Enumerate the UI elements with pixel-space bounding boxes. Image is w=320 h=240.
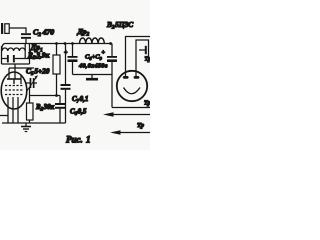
input crystal X1 (1, 23, 9, 34)
node C8 tap (71, 42, 74, 45)
arrow to transformer 2 (110, 130, 150, 134)
capacitor C6 (55, 96, 65, 124)
capacitor to transformer (139, 46, 147, 54)
wire filter ground line (73, 74, 113, 76)
wire bottom rail (2, 122, 66, 124)
capacitor C9 (102, 50, 118, 62)
tank capacitor (2, 55, 26, 62)
tube L2 (117, 71, 147, 101)
wire y68 (9, 67, 34, 69)
svg-text:С2470: С2470 (33, 28, 54, 39)
capacitor C2 (21, 33, 31, 43)
wire y64 (2, 63, 30, 65)
wire HV bottom line (112, 107, 150, 109)
chassis ground (86, 75, 98, 80)
svg-text:Рис. 1: Рис. 1 (66, 135, 91, 145)
svg-text:R230к: R230к (35, 103, 55, 113)
capacitor C8 (64, 44, 78, 75)
wire B+ rail (5, 43, 113, 45)
resistor R3 (53, 44, 60, 96)
svg-text:+: + (102, 50, 106, 56)
wire cathode line (30, 88, 61, 103)
svg-text:Тр: Тр (137, 122, 145, 129)
node R3 tap (55, 42, 58, 45)
svg-text:Тр: Тр (145, 57, 151, 63)
svg-text:С70,1: С70,1 (72, 95, 88, 105)
svg-text:+: + (64, 50, 68, 56)
wire anode 1 (126, 37, 151, 77)
svg-text:Др2: Др2 (77, 27, 90, 38)
wire left edge (1, 46, 3, 64)
inductor Dr2 (80, 38, 105, 44)
node C9 tap (109, 42, 112, 45)
svg-text:В25Ц3С: В25Ц3С (106, 20, 133, 31)
svg-text:Тр: Тр (144, 101, 150, 107)
node C7 tap (64, 42, 67, 45)
capacitor C7 (61, 44, 71, 124)
tube L1 (1, 64, 27, 123)
wire from crystal to C2 (10, 28, 27, 33)
resistor R2 (27, 103, 34, 123)
svg-text:R33,9к: R33,9к (27, 51, 50, 62)
trimmer capacitor C5 (26, 76, 38, 92)
ground (21, 123, 31, 132)
svg-text:40,0х450в: 40,0х450в (78, 63, 108, 70)
wire y58 stub (25, 58, 40, 60)
wire C9 / right vertical (111, 44, 113, 57)
svg-text:С8+С9: С8+С9 (85, 54, 103, 62)
wire tube cathode tick (0, 115, 8, 117)
wire grid feed (29, 44, 31, 65)
svg-text:С55÷20: С55÷20 (26, 67, 50, 78)
svg-text:С60,5: С60,5 (70, 108, 87, 118)
arrow to transformer 1 (103, 112, 150, 116)
wire anode 2 (136, 40, 149, 77)
inductor Dr1 (2, 44, 25, 59)
